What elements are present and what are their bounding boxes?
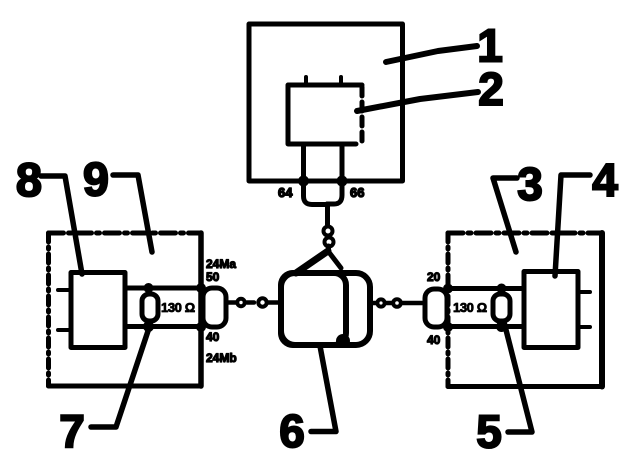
- svg-text:7: 7: [59, 405, 85, 450]
- resistor left top dot: [144, 283, 154, 293]
- left shaft middle: [247, 300, 254, 305]
- node dot box3 edge bottom: [443, 322, 453, 332]
- junction dot 66: [337, 176, 348, 187]
- svg-text:3: 3: [517, 158, 543, 210]
- label 24Mb: [206, 351, 237, 365]
- box 4: [524, 272, 578, 348]
- box 3 left edge: [446, 233, 451, 387]
- value label 130 ohm left: [161, 300, 195, 315]
- svg-text:6: 6: [279, 405, 305, 450]
- svg-text:4: 4: [592, 154, 618, 206]
- box 3 top edge: [448, 231, 602, 236]
- label 24Ma: [206, 257, 236, 271]
- numeral 2: [478, 63, 504, 115]
- svg-text:40: 40: [206, 330, 220, 344]
- resistor 130 ohm left body: [142, 294, 158, 321]
- leader line 1: [386, 46, 477, 62]
- label 40 left: [206, 330, 220, 344]
- box 2 (inner unit): [288, 85, 362, 144]
- label 40 right: [427, 333, 441, 347]
- node dot box3 edge top: [443, 284, 453, 294]
- leader line 7: [91, 325, 150, 427]
- right shaft link 2: [393, 299, 401, 307]
- label 50: [206, 270, 220, 284]
- tick on box 8 lower left: [58, 328, 71, 332]
- right shaft stub of unit 6: [370, 301, 377, 306]
- box 3 bottom edge: [448, 384, 602, 389]
- tick on box 4 lower right: [578, 325, 590, 329]
- leader line 3: [493, 178, 517, 252]
- wire right lead from box 2: [327, 144, 342, 204]
- funnel left leg: [296, 251, 328, 273]
- left shaft link 1: [258, 298, 266, 306]
- leader line 6: [311, 346, 336, 432]
- unit 6 outer body: [281, 273, 370, 345]
- box 9 bottom edge: [49, 384, 202, 389]
- numeral 8: [16, 153, 42, 206]
- svg-text:64: 64: [278, 185, 293, 200]
- wire left lead from box 2: [304, 144, 328, 205]
- leader line 4: [555, 175, 590, 276]
- numeral 7: [59, 405, 85, 450]
- pin tick b on box 2: [339, 77, 343, 85]
- value label 130 ohm right: [453, 300, 487, 315]
- wire box8 to resistor top: [125, 286, 201, 291]
- wire box3 edge to box4 top: [448, 286, 524, 291]
- box 1 (controller enclosure): [249, 24, 403, 181]
- chain link lower: [325, 238, 334, 247]
- svg-text:130 Ω: 130 Ω: [453, 300, 487, 315]
- numeral 6: [279, 405, 305, 450]
- left flange coupling: [203, 288, 226, 327]
- wire box3 edge to box4 bottom: [448, 324, 524, 329]
- resistor right bottom dot: [496, 321, 507, 332]
- leader line 9: [113, 175, 152, 252]
- svg-text:9: 9: [83, 153, 109, 206]
- svg-text:50: 50: [206, 270, 220, 284]
- junction dot 64: [298, 176, 309, 187]
- left shaft stub of unit 6: [268, 300, 281, 305]
- right flange coupling: [425, 289, 447, 327]
- box 8: [71, 273, 125, 348]
- svg-text:8: 8: [16, 153, 42, 206]
- label 66: [350, 185, 364, 200]
- pin tick a on box 2: [304, 77, 308, 85]
- numeral 9: [83, 153, 109, 206]
- chain link upper: [324, 227, 333, 236]
- svg-text:2: 2: [478, 63, 504, 115]
- resistor right top dot: [497, 284, 507, 294]
- box 9 right edge: [198, 233, 204, 386]
- svg-text:20: 20: [427, 270, 441, 284]
- svg-text:66: 66: [350, 185, 364, 200]
- svg-text:5: 5: [476, 406, 502, 450]
- node dot box9 edge top: [196, 283, 206, 293]
- box 3 right edge: [599, 233, 605, 387]
- resistor 130 ohm right body: [493, 294, 510, 321]
- right shaft to flange: [402, 301, 423, 306]
- leader line 5: [504, 322, 532, 432]
- wire vertical link to unit 6: [325, 204, 330, 226]
- leader line 2: [357, 92, 478, 111]
- box 9 top edge: [49, 231, 202, 236]
- svg-text:40: 40: [427, 333, 441, 347]
- tick on box 4 upper right: [578, 290, 590, 294]
- left shaft link 2: [237, 299, 244, 306]
- numeral 5: [476, 406, 502, 450]
- wire into funnel: [326, 246, 331, 252]
- svg-text:24Mb: 24Mb: [206, 351, 237, 365]
- junction dot on unit 6: [336, 334, 350, 348]
- right shaft link 1: [377, 299, 384, 306]
- tick on box 8 upper left: [58, 288, 71, 292]
- svg-text:24Ma: 24Ma: [206, 257, 236, 271]
- node dot box9 edge bottom: [196, 322, 206, 332]
- svg-text:130 Ω: 130 Ω: [161, 300, 195, 315]
- leader line 8: [41, 176, 82, 274]
- label 64: [278, 185, 293, 200]
- right shaft middle: [386, 301, 393, 306]
- numeral 3: [517, 158, 543, 210]
- unit 6 inner body: [281, 273, 346, 345]
- numeral 4: [592, 154, 618, 206]
- box 9 left edge: [46, 233, 51, 386]
- resistor left bottom dot: [143, 321, 154, 332]
- funnel right leg: [328, 251, 341, 268]
- wire box8 to resistor bottom: [125, 324, 201, 329]
- label 20: [427, 270, 441, 284]
- numeral 1: [477, 20, 503, 72]
- left shaft to flange: [226, 300, 236, 305]
